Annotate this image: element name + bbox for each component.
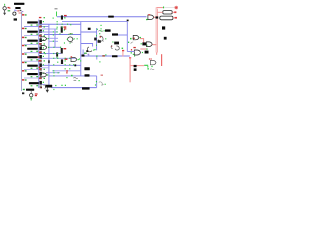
row4 transistor lower xyxy=(40,51,42,54)
stub x83.1 xyxy=(82,50,84,55)
row1 value text red xyxy=(39,17,42,18)
red net vertical x130 xyxy=(129,58,131,83)
row5 transistor body xyxy=(39,55,42,59)
black blob below xyxy=(134,68,137,71)
red specks above gate D xyxy=(149,58,152,59)
row5 value text red xyxy=(39,52,42,53)
ground below V1 xyxy=(3,13,6,15)
red corner speck xyxy=(129,57,131,59)
row4 label xyxy=(27,48,38,50)
V3 green marks xyxy=(30,98,32,101)
row3 green pin under label left xyxy=(31,43,33,44)
r8 extras xyxy=(41,82,42,83)
red speck above U1 xyxy=(148,14,150,15)
greens near Gf Gg xyxy=(96,29,106,42)
gate Gd squiggle xyxy=(73,77,78,80)
red text left of H14 xyxy=(66,70,68,73)
green junction on H11 xyxy=(96,55,97,56)
row5 green pin under label left xyxy=(31,59,33,60)
left rail x21.6 xyxy=(21,12,23,92)
row7 pin text green xyxy=(25,70,27,71)
rail x55 xyxy=(54,29,56,47)
row6 transistor lower xyxy=(40,68,42,71)
greens on H3 xyxy=(57,24,72,26)
transistor T2 xyxy=(61,26,67,32)
black blob Gh xyxy=(94,38,96,41)
row6 transistor body xyxy=(39,63,42,67)
greens on H5 right xyxy=(101,25,102,32)
row2 pin text green xyxy=(25,28,27,29)
gate Ge xyxy=(87,47,92,52)
wire y29 xyxy=(42,28,57,30)
green speck below xyxy=(99,61,100,62)
row1 label xyxy=(27,21,38,23)
row4 value text red xyxy=(39,43,42,44)
ground under label A xyxy=(46,87,49,92)
row8 green pin under label right xyxy=(36,85,38,86)
V1 green pin text xyxy=(8,10,11,11)
gate Ga2 xyxy=(41,46,47,50)
row2 transistor lower xyxy=(40,34,42,37)
row2 pin text red xyxy=(22,28,24,30)
R1 red pin xyxy=(174,11,176,13)
wire H7 y35 xyxy=(118,34,127,36)
wire y38.3 xyxy=(49,37,58,39)
row7 green pin under label right xyxy=(36,76,38,77)
row7 wire xyxy=(24,77,39,79)
row8 green pin right of transistor xyxy=(43,82,44,83)
gray arc below gate A xyxy=(131,42,133,44)
wire H5 y32 xyxy=(81,31,97,33)
row5 pin text green xyxy=(25,53,27,54)
row4 green pin under label right xyxy=(36,51,38,52)
gate Gb xyxy=(41,73,47,77)
wire y32 xyxy=(40,31,58,33)
row6 label xyxy=(27,65,38,67)
row4 pin text red xyxy=(22,45,24,47)
junction dot on H2 xyxy=(127,20,129,22)
row1 green dash xyxy=(44,17,46,18)
squiggle at corner xyxy=(99,82,104,85)
row4 green pin right of transistor xyxy=(43,47,44,48)
row5 green dash xyxy=(44,52,46,53)
row6 wire xyxy=(24,69,39,71)
row2 green pin under label left xyxy=(31,34,33,35)
red vertical x161.6 xyxy=(161,54,163,66)
wire H3 y24.3 xyxy=(39,23,81,25)
junction square xyxy=(156,16,159,18)
gate D xyxy=(150,60,156,64)
R1 left lead xyxy=(157,11,163,13)
gate Gg xyxy=(98,36,103,41)
green grid specks middle band xyxy=(45,17,135,78)
row7 wire y72.7 xyxy=(46,72,60,74)
row5 pin text red xyxy=(22,53,24,55)
row3 green dash xyxy=(44,35,46,36)
vertical rail x127.3 xyxy=(126,22,128,52)
row8 wire y84.4 xyxy=(40,83,45,85)
red stub x122.9 xyxy=(122,51,124,56)
gate C output green xyxy=(142,52,143,53)
faint lead to port xyxy=(164,7,174,9)
row8 pin text red xyxy=(22,79,24,81)
row9 black text xyxy=(22,92,24,94)
transistor T4 xyxy=(61,58,68,64)
black square at gate B input xyxy=(142,42,146,45)
transistor T5 xyxy=(56,52,58,57)
green specks on H18 xyxy=(55,85,66,87)
red port star xyxy=(174,6,178,10)
row1 wire y26.5 xyxy=(24,26,49,28)
wire H11 y56.8 xyxy=(85,55,130,57)
gate Gc xyxy=(71,57,77,61)
green speck below U1 xyxy=(146,19,148,20)
row7 green pin right of transistor xyxy=(43,73,44,74)
gate U1 top xyxy=(148,15,154,20)
voltage source V1 xyxy=(3,4,6,13)
row8 label xyxy=(29,82,39,84)
greens near rail x55 xyxy=(53,28,58,42)
blue pin mark xyxy=(14,10,17,11)
row6 green pin under label right xyxy=(36,68,38,69)
row6 value text red xyxy=(39,60,42,61)
label below V2 xyxy=(14,18,17,20)
voltage source V2 xyxy=(13,12,16,15)
row3 wire xyxy=(24,44,39,46)
gate Ga xyxy=(41,37,47,41)
green tick near V2 wire xyxy=(20,13,23,14)
row3 value text red xyxy=(39,35,42,36)
wire y41.3 xyxy=(49,40,58,42)
green tick top lead xyxy=(163,7,164,9)
row4 transistor body xyxy=(39,47,42,51)
row6 green dash xyxy=(44,60,46,61)
row1 pin text green xyxy=(25,14,27,15)
gate Gf squiggle xyxy=(99,30,103,31)
net label nQ xyxy=(84,67,89,70)
brown script text on H11 xyxy=(102,55,105,57)
R2 right lead xyxy=(173,17,175,19)
transistor T3 xyxy=(61,48,66,54)
gate A green output xyxy=(140,37,141,38)
red bus vertical xyxy=(155,7,157,52)
row5 green pin under label right xyxy=(36,59,38,60)
gray text above green tick xyxy=(55,8,58,9)
row1 green pin under label left xyxy=(31,25,33,26)
red top lead xyxy=(157,7,164,9)
green speck left xyxy=(93,50,94,51)
bottom wire H18 y87.6 xyxy=(52,87,97,89)
gate C xyxy=(134,50,140,55)
row5 label xyxy=(27,56,38,58)
voltage source V3 xyxy=(30,94,33,97)
extra red specks rows 5-6 xyxy=(38,56,41,68)
red speck near Gg xyxy=(100,36,102,37)
wire H14 y70.8 xyxy=(52,70,81,72)
row2 value text red xyxy=(39,26,42,27)
wire H12 y58.3 xyxy=(41,57,76,59)
row6 pin text red xyxy=(22,62,24,64)
V3 red text xyxy=(35,93,38,96)
small black square near top xyxy=(88,28,91,30)
vertical rail x38.8 xyxy=(38,20,40,89)
row7 value text red xyxy=(39,69,42,70)
stub below H11 xyxy=(96,56,98,59)
row1 green pin right of transistor xyxy=(43,21,44,22)
green wire segment xyxy=(144,64,148,66)
R2 red pin xyxy=(175,17,177,19)
row4 green pin under label left xyxy=(31,51,33,52)
transistor on rail x48.9 xyxy=(48,60,50,63)
row7 transistor lower xyxy=(40,76,42,79)
label on H7 xyxy=(112,33,118,35)
gate A xyxy=(133,35,139,39)
row7 transistor body xyxy=(39,72,42,76)
row6 wire y67.8 xyxy=(39,67,49,69)
row4 wire xyxy=(24,52,39,54)
row9 label xyxy=(26,89,34,91)
row5 green pin right of transistor xyxy=(43,56,44,57)
black net label N1 xyxy=(162,26,165,29)
gate B xyxy=(146,42,152,47)
cluster near rail bottom xyxy=(86,50,88,52)
row7 green pin under label left xyxy=(31,76,33,77)
net label right of H16 xyxy=(85,74,90,76)
row6 green pin right of transistor xyxy=(43,64,44,65)
black blob on red net xyxy=(134,65,137,67)
row7 green dash xyxy=(44,69,46,70)
vertical rail x48.9 xyxy=(48,24,50,87)
greens near Gj xyxy=(112,41,132,53)
red speck above stub xyxy=(122,50,124,51)
per-row cell details xyxy=(22,14,45,88)
red wire y49 xyxy=(140,48,146,50)
label on H1 xyxy=(108,16,114,18)
row7 label xyxy=(27,73,38,75)
row8 transistor lower xyxy=(40,86,42,89)
row1 transistor lower xyxy=(40,25,42,28)
wire H13 y65.3 xyxy=(42,64,81,66)
row1 pin text red xyxy=(22,14,24,16)
red speck near Gj xyxy=(131,49,132,50)
gate Gj xyxy=(115,46,119,50)
purple pin mark xyxy=(15,9,18,12)
resistor R2 outline xyxy=(160,16,173,20)
row2 green pin right of transistor xyxy=(43,30,44,31)
label over H5 xyxy=(105,29,111,31)
row5 transistor lower xyxy=(40,60,42,63)
row3 transistor body xyxy=(39,38,42,42)
row8 green pin under label left xyxy=(31,85,33,86)
row1 green pin under label right xyxy=(36,24,38,25)
red net horizontal y65.6 xyxy=(130,65,144,67)
vertical rail x96.6 xyxy=(96,28,98,50)
black net label N2 xyxy=(164,37,167,40)
row7 pin text red xyxy=(22,70,24,72)
R1 right lead xyxy=(172,11,174,13)
row3 transistor lower xyxy=(40,43,42,46)
row2 green pin under label right xyxy=(36,34,38,35)
red connector y54.8 xyxy=(156,52,158,54)
wire H16 y75.8 xyxy=(49,75,97,77)
junction blob top of rail xyxy=(82,55,85,57)
row2 transistor body xyxy=(39,29,42,33)
row5 wire xyxy=(24,60,39,62)
black blob right of gate C xyxy=(145,51,149,54)
row3 pin text red xyxy=(22,37,24,39)
U1 output red stub xyxy=(154,16,157,18)
green tick x56.5 xyxy=(55,12,58,17)
purple speck left xyxy=(21,11,24,12)
wire H2 y21.5 xyxy=(62,21,127,23)
bottom net label B xyxy=(82,87,90,89)
resistor R1 outline xyxy=(163,11,172,14)
row8 green dash xyxy=(44,78,46,79)
green speck right xyxy=(147,68,149,69)
junction square on H13 xyxy=(74,64,76,66)
greens at gate B input xyxy=(141,43,148,46)
row2 wire xyxy=(24,35,39,37)
wire H1 y16.8 xyxy=(57,16,147,18)
row2 label xyxy=(27,31,38,33)
V2 pink text xyxy=(19,13,22,14)
row2 green dash xyxy=(44,26,46,27)
net label L2 xyxy=(15,7,20,9)
row3 green pin under label right xyxy=(36,43,38,44)
row4 pin text green xyxy=(25,45,27,46)
gate C red input specks xyxy=(133,47,135,48)
gate Gk oval xyxy=(68,37,73,42)
vertical rail x80.8 xyxy=(80,22,82,76)
row3 pin text green xyxy=(25,37,27,38)
row8 value text red xyxy=(39,78,42,79)
row6 pin text green xyxy=(25,62,27,63)
blue wire into gate C xyxy=(127,51,134,53)
wire H8 y43.5 with corner xyxy=(81,44,93,47)
wire H6 y34.4 xyxy=(44,34,81,36)
row3 green pin right of transistor xyxy=(43,39,44,40)
V1 red value text xyxy=(8,7,11,9)
row6 green pin under label left xyxy=(31,68,33,69)
gray squiggle right xyxy=(150,68,154,71)
net label L1 xyxy=(14,3,24,5)
green red pair right of H7 xyxy=(130,38,135,40)
label Gi blob xyxy=(114,42,119,45)
wire H9 y47.3 xyxy=(49,46,61,48)
row4 green dash xyxy=(44,43,46,44)
wire H10 y53.4 xyxy=(39,52,61,54)
green specks below gate D xyxy=(147,66,152,68)
V2 red text xyxy=(17,10,19,11)
row8 transistor body xyxy=(39,81,42,85)
green blob on H16 xyxy=(71,75,73,77)
transistor T1 x61.5 xyxy=(61,15,67,20)
red jog from gate A xyxy=(140,39,144,44)
greens on H6 xyxy=(59,33,72,34)
row1 transistor body xyxy=(39,20,42,24)
gate B output red xyxy=(152,44,156,46)
row8 pin text green xyxy=(25,79,27,80)
row9 green speck xyxy=(23,89,25,90)
row3 label xyxy=(27,40,38,42)
bottom net label A xyxy=(45,85,52,88)
label on H11 xyxy=(112,55,118,57)
